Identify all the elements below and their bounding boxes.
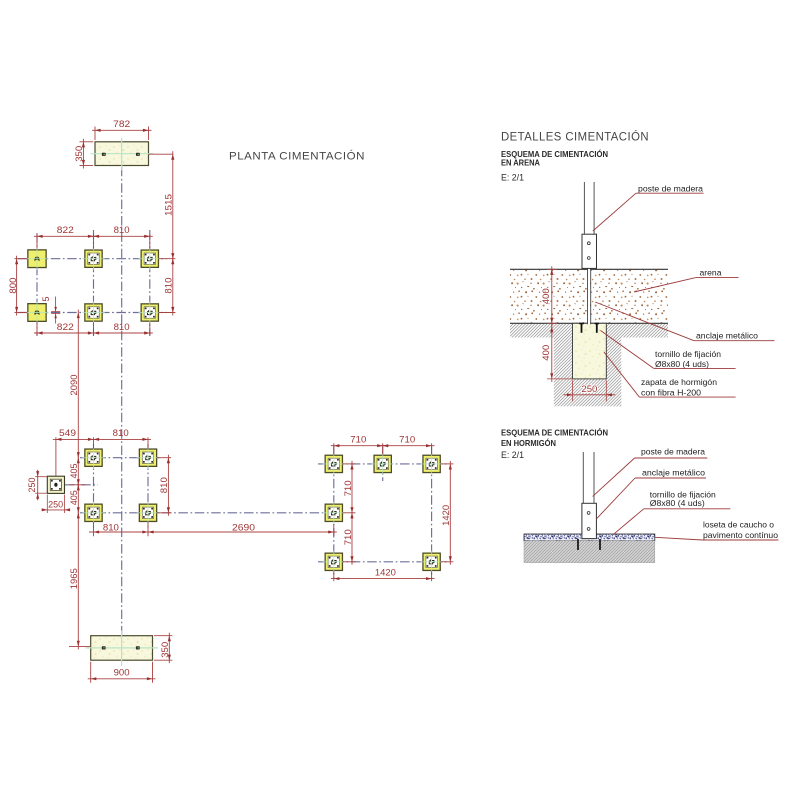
svg-text:2690: 2690 [232,522,255,532]
svg-text:710: 710 [350,434,366,444]
extension lines mid cluster top dims [93,437,95,448]
svg-text:405: 405 [69,464,79,479]
extension lines 900 [90,662,92,683]
detail1 ground hatch band right [606,324,668,338]
mid cluster pad C4 [137,502,160,525]
dim 1515 [164,151,175,262]
dim 710 top left [331,434,386,447]
svg-text:822: 822 [57,225,74,235]
right cluster col2 centerline [382,445,384,482]
dim 350 top strip [74,139,85,169]
top strip footing 782x350 [91,138,154,171]
extension lines 800 left [15,258,28,260]
bottom strip anchor left [102,646,106,649]
detail1 dim 400 sand [541,266,557,326]
dim 250 horizontal [42,495,70,513]
svg-text:zapata de hormigón: zapata de hormigón [641,377,717,387]
svg-text:1420: 1420 [441,505,451,526]
extension lines 782 [94,127,96,141]
detail2 leader poste de madera [593,458,708,496]
detail2 leader anclaje metalico [597,478,706,519]
dim 710 left upper [343,461,354,516]
svg-text:822: 822 [57,322,74,332]
svg-text:pavimento contínuo: pavimento contínuo [703,530,778,540]
main vertical centerline [121,167,123,635]
svg-text:2090: 2090 [69,375,79,396]
small pad centerline [65,484,98,486]
right cluster row3 centerline [318,561,449,563]
detail1 dim 250 [564,380,616,401]
svg-text:poste de madera: poste de madera [641,447,705,457]
right cluster pad D3 [420,453,443,476]
svg-text:E: 2/1: E: 2/1 [501,450,524,460]
detail1 pit hatch left [554,338,573,407]
detail1 pit hatch right [606,338,621,407]
dim 822 top [34,225,97,238]
extension lines right cluster top dims [333,443,335,454]
top cluster row2 centerline [18,312,167,314]
svg-text:arena: arena [700,268,722,278]
svg-text:ESQUEMA DE CIMENTACIÓN: ESQUEMA DE CIMENTACIÓN [501,148,608,159]
extension tick small pad mid [70,484,86,486]
svg-text:Ø8x80 (4 uds): Ø8x80 (4 uds) [650,498,705,508]
dim 710 top right [380,434,435,447]
detail2 leader tornillo [614,509,731,535]
top cluster solid pad A1 [25,248,48,270]
top cluster col3 centerline [149,230,151,336]
right cluster pad D6 [420,551,443,574]
detail1 ground hatch band left [510,324,573,338]
detail2 fixing bolt right [599,539,601,550]
svg-text:E: 2/1: E: 2/1 [501,172,524,182]
top strip anchor left [102,153,106,156]
extension lines 1420 right [441,463,453,465]
top cluster pad B4 [139,301,162,324]
top cluster pad B2 [139,247,162,270]
svg-text:Ø8x80 (4 uds): Ø8x80 (4 uds) [655,359,709,369]
detail2 wooden post [583,452,594,503]
svg-text:DETALLES CIMENTACIÓN: DETALLES CIMENTACIÓN [501,129,649,144]
svg-text:810: 810 [103,522,119,532]
svg-text:810: 810 [114,322,130,332]
mid cluster pad C2 [137,446,160,469]
svg-text:250: 250 [27,478,37,493]
mid cluster row1 centerline [80,457,161,459]
top cluster col2 centerline [93,230,95,336]
svg-text:250: 250 [48,500,63,510]
mid cluster pad C1 [82,446,105,469]
svg-text:EN ARENA: EN ARENA [501,158,540,167]
svg-text:810: 810 [159,477,169,493]
dim 2090 [69,310,80,461]
svg-text:poste de madera: poste de madera [638,183,703,193]
dim 810 top [91,225,153,238]
dim 549 [53,428,97,441]
dim 800 left [8,256,18,316]
detail2 concrete slab [524,541,655,563]
right cluster pad D5 [323,551,346,574]
extension lines bottom chain [93,522,95,536]
svg-text:5: 5 [41,297,51,302]
extension lines top cluster lower dims [36,322,38,335]
dim 810 mid top [91,428,152,441]
dim 5 offset [41,297,60,324]
extension line small pad top [55,437,57,475]
dim 810 mid right [159,455,170,516]
svg-text:400: 400 [541,345,551,361]
detail1 fixing bolt left [579,324,583,333]
right cluster pad D1 [323,453,346,476]
top cluster pad B1 [82,247,105,270]
svg-text:1965: 1965 [69,568,79,589]
extension lines 350 right [154,635,172,637]
svg-text:con fibra H-200: con fibra H-200 [641,387,701,397]
top cluster pad B3 [82,301,105,324]
extension lines mid right 810 [157,457,171,459]
dim 350 bottom strip [160,633,171,664]
extension lines right cluster left dims [343,463,356,465]
svg-text:810: 810 [113,428,129,438]
detail1 concrete footing [573,323,607,379]
svg-text:710: 710 [343,529,353,545]
dim 810 bottom [91,322,153,335]
detail2 fixing bolt left [577,539,579,550]
dim 710 left lower [343,510,354,565]
detail1 fixing bolt right [595,324,599,333]
detail1 pit hatch bottom [573,379,607,406]
right cluster pad D4 [323,502,346,525]
svg-text:1420: 1420 [375,568,396,578]
svg-text:549: 549 [59,428,76,438]
svg-text:PLANTA CIMENTACIÓN: PLANTA CIMENTACIÓN [229,150,365,163]
detail2 leader loseta [655,537,778,540]
extension line bottom strip mid [69,645,91,647]
right cluster col1 centerline [333,446,335,579]
dim 1965 [69,510,80,650]
dim 822 bottom [34,322,97,335]
svg-text:anclaje metálico: anclaje metálico [696,331,758,341]
detail1 anchor rod [588,268,591,324]
mid cluster col1 centerline [93,444,95,528]
right cluster pad D2 [371,453,394,476]
svg-text:810: 810 [164,278,174,294]
top strip anchor right [136,153,140,156]
extension lines 1420 bottom [333,571,335,581]
detail1 anchor plate [582,234,597,268]
mid cluster col2 centerline [147,444,149,528]
svg-text:350: 350 [74,146,84,162]
extension lines 810 right / 1515 base [159,258,176,260]
detail1 wooden post [584,182,594,234]
extension lines 350 left [80,141,94,143]
mid cluster row2 long centerline [80,512,325,514]
right cluster col3 centerline [431,446,433,579]
detail1 leader anclaje metalico [595,302,774,341]
dim 1420 right [441,461,452,565]
dim 405 lower [69,482,80,516]
dim 900 [88,668,156,681]
detail2 anchor plate [582,503,597,538]
detail1 leader arena [634,278,739,292]
svg-text:800: 800 [8,278,18,294]
svg-text:405: 405 [69,490,79,505]
detail1 dim 400 footing [541,323,573,382]
top cluster solid pad A2 [25,302,48,324]
svg-text:ESQUEMA DE CIMENTACIÓN: ESQUEMA DE CIMENTACIÓN [501,427,608,438]
top cluster row1 centerline [18,258,167,260]
svg-text:782: 782 [113,119,130,129]
dim 1515 leader from strip [149,153,173,155]
dim 2690 [145,522,337,533]
dim 405 upper [69,455,80,488]
mid cluster pad C3 [82,502,105,525]
dim 1420 bottom [331,568,435,581]
svg-text:EN HORMIGÓN: EN HORMIGÓN [501,437,556,448]
svg-text:710: 710 [343,480,353,496]
svg-text:810: 810 [114,225,130,235]
svg-text:400: 400 [541,288,551,304]
extension lines top cluster upper dims [36,234,38,248]
detail1 sand layer [510,269,668,323]
dim 250 vertical [27,470,47,501]
detail1 leader poste de madera [593,193,704,231]
bottom strip footing 900x350 [86,631,159,667]
svg-text:1515: 1515 [164,194,174,216]
svg-text:loseta de caucho o: loseta de caucho o [703,519,774,529]
dim 810 right [164,256,175,316]
svg-text:710: 710 [399,434,415,444]
dim 782 [92,119,152,132]
right cluster row1 centerline [318,463,449,465]
top cluster col1 centerline [36,233,38,336]
detail2 rubber tile layer [524,534,655,541]
detail1 leader tornillo [601,331,736,369]
svg-text:900: 900 [114,668,130,678]
svg-text:tornillo de fijación: tornillo de fijación [655,349,721,359]
svg-text:anclaje metálico: anclaje metálico [642,468,705,478]
bottom strip anchor right [136,646,140,649]
detail1 leader zapata [604,352,736,397]
small pad 250x250 [47,476,64,493]
dim 810 mid bottom [89,522,153,533]
svg-text:250: 250 [581,384,597,394]
svg-text:350: 350 [160,642,170,658]
